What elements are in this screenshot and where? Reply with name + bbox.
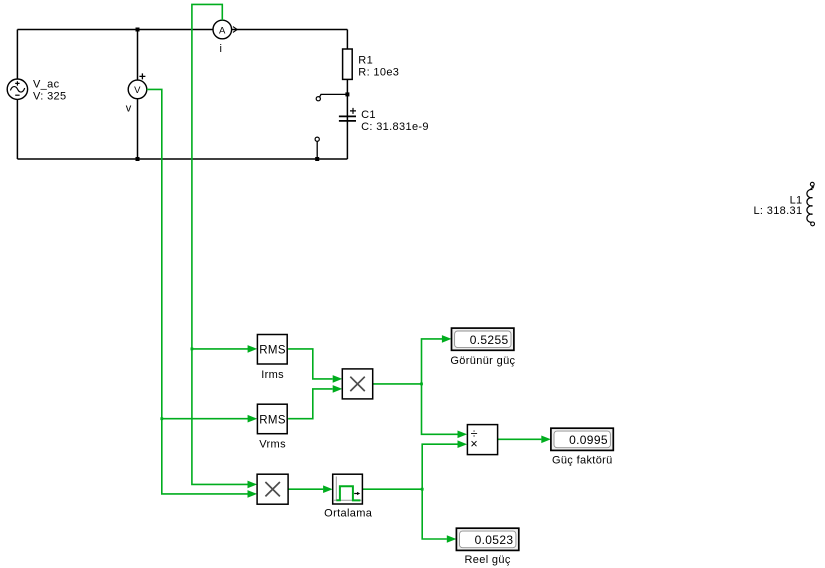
svg-text:V: V xyxy=(134,85,141,96)
svg-text:RMS: RMS xyxy=(259,414,286,426)
display Görünür güç (0.5255) xyxy=(452,328,514,350)
svg-text:Görünür güç: Görünür güç xyxy=(450,355,515,367)
label Reel güç xyxy=(464,554,510,566)
junction top (voltmeter/top wire) xyxy=(136,28,140,32)
svg-text:R1: R1 xyxy=(358,55,373,67)
value label R1 xyxy=(358,55,399,79)
block RMS U2 (Vrms) xyxy=(257,404,287,434)
svg-text:Vrms: Vrms xyxy=(259,439,286,451)
value label C1 xyxy=(361,109,429,133)
wire stub port P2 to bottom wire xyxy=(316,141,318,159)
svg-text:Reel güç: Reel güç xyxy=(464,554,510,566)
wire voltmeter measurement (green, to Vrms and multiplier) xyxy=(147,89,257,497)
capacitor C1 xyxy=(339,108,356,121)
wire Vrms out to multiplier in2 xyxy=(288,385,342,419)
wire left vertical (source branch) xyxy=(16,30,18,160)
label v xyxy=(126,103,132,115)
svg-text:v: v xyxy=(126,103,132,115)
block divider D1 (÷ ×) xyxy=(467,425,497,455)
svg-text:0.0523: 0.0523 xyxy=(475,533,514,547)
ac source V_ac xyxy=(7,79,27,99)
label Güç faktörü xyxy=(552,454,613,466)
label i xyxy=(220,43,223,55)
svg-text:×: × xyxy=(470,437,478,451)
label Irms xyxy=(261,369,284,381)
wire Ortalama out to divider in2 and Reel display xyxy=(362,440,467,542)
svg-text:i: i xyxy=(220,43,223,55)
svg-text:Irms: Irms xyxy=(261,369,284,381)
svg-text:L: 318.31: L: 318.31 xyxy=(753,205,802,217)
wire voltmeter branch vertical xyxy=(137,30,139,160)
value label L1 xyxy=(753,195,802,218)
wire multiplier out to display and divider in1 xyxy=(373,335,467,438)
block multiplier M1 (S x I) xyxy=(342,369,372,399)
wire top horizontal xyxy=(17,29,347,31)
wire bottom multiplier out to Ortalama xyxy=(288,485,333,493)
label Görünür güç xyxy=(450,355,515,367)
wire R1-C1 branch vertical xyxy=(346,30,348,160)
wire divider out to Güç faktörü display xyxy=(497,436,551,444)
block multiplier M2 (v x i) xyxy=(257,474,288,504)
label Ortalama xyxy=(324,508,373,520)
value label V_ac xyxy=(33,79,67,103)
svg-text:0.5255: 0.5255 xyxy=(470,333,509,347)
svg-text:V_ac: V_ac xyxy=(33,79,60,91)
wire bottom horizontal xyxy=(17,158,347,160)
junction bottom node P2 xyxy=(315,157,319,161)
svg-text:C: 31.831e-9: C: 31.831e-9 xyxy=(361,121,429,133)
inductor L1 xyxy=(807,182,815,226)
junction R1-C1 node xyxy=(345,92,349,96)
resistor R1 xyxy=(343,49,353,79)
svg-text:Ortalama: Ortalama xyxy=(324,508,373,520)
wire ammeter measurement (green, to Irms and multiplier) xyxy=(191,4,258,488)
voltmeter v xyxy=(128,73,147,98)
svg-text:A: A xyxy=(219,25,226,36)
label Vrms xyxy=(259,439,286,451)
port P2 (open pin) xyxy=(315,137,319,141)
wire Irms out to multiplier in1 xyxy=(288,349,342,383)
wire stub to port P1 xyxy=(320,94,348,97)
svg-text:Güç faktörü: Güç faktörü xyxy=(552,454,613,466)
svg-text:V: 325: V: 325 xyxy=(33,91,67,103)
block Ortalama (mean value) xyxy=(333,474,363,504)
display Güç faktörü (0.0995) xyxy=(551,428,613,450)
ammeter i xyxy=(213,20,237,39)
svg-text:R: 10e3: R: 10e3 xyxy=(358,67,399,79)
svg-text:RMS: RMS xyxy=(259,345,286,357)
port P1 (open pin) xyxy=(316,97,320,101)
display Reel güç (0.0523) xyxy=(456,528,518,550)
junction bottom (voltmeter/bottom wire) xyxy=(136,157,140,161)
svg-text:0.0995: 0.0995 xyxy=(569,433,608,447)
svg-text:C1: C1 xyxy=(361,109,376,121)
block RMS U1 (Irms) xyxy=(257,335,287,365)
